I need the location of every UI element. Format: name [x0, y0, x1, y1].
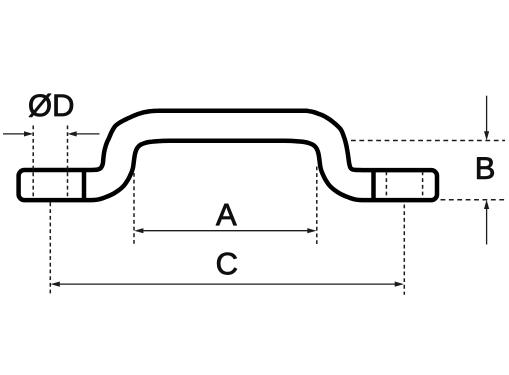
- right hole hidden lines: [386, 172, 422, 198]
- dimension C line: [60, 283, 396, 285]
- dimension B arrows: [486, 96, 488, 245]
- dimension B extension lines: [351, 141, 507, 200]
- dimension ØD arrows: [3, 133, 100, 135]
- dimension A line: [143, 230, 309, 232]
- dimension C extension lines: [50, 203, 404, 295]
- right foot end line: [371, 168, 376, 202]
- dimension A extension lines: [134, 167, 317, 245]
- left hole hidden lines + ØD extension lines: [33, 126, 67, 198]
- label A: [216, 204, 237, 225]
- label ØD: [29, 94, 73, 117]
- handle outline: [19, 111, 437, 200]
- left foot end line: [82, 168, 87, 202]
- label C: [217, 253, 237, 275]
- label B: [477, 157, 493, 178]
